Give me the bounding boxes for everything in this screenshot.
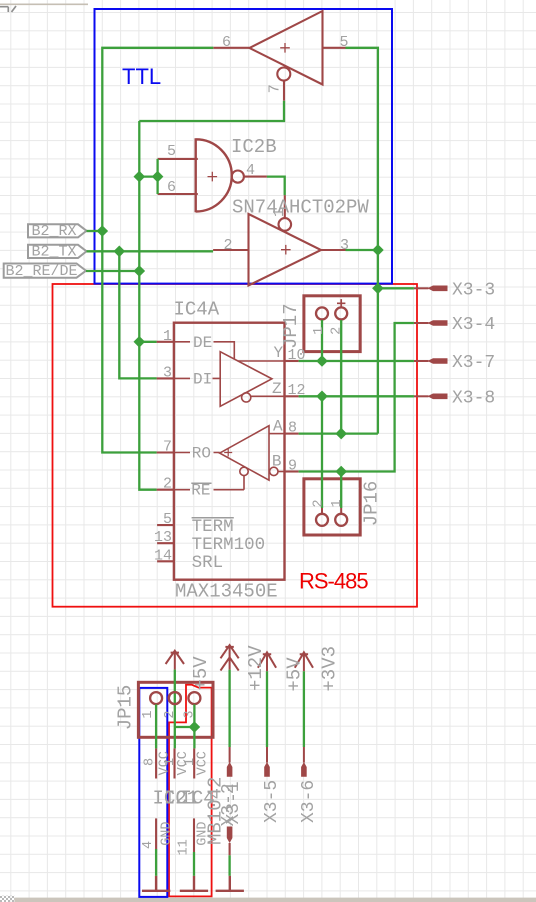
svg-text:8: 8 [288, 420, 297, 437]
wire +12V arrow down to X3-1 [228, 670, 230, 747]
wire X3-2 to ground [228, 855, 230, 876]
pin X3-1 flag [227, 762, 233, 777]
wire NOR pin4 to IC2A pin1 [267, 177, 285, 196]
buffer gate IC2A (pointing right) [249, 214, 322, 286]
receiver triangle inside IC4A [174, 426, 285, 490]
wire Y pin10 to X3-7 [299, 360, 414, 362]
junction NOR input tie [152, 171, 164, 183]
pin stub X3-6 [303, 747, 305, 763]
wire JP15 pin1 down to IC2 VCC [155, 704, 157, 748]
wire +5V down to X3-5 [266, 671, 268, 747]
svg-text:A: A [273, 418, 283, 436]
junction B2_RX [97, 225, 109, 237]
IC2 GND pin 4 stub [155, 818, 157, 849]
svg-text:11: 11 [177, 839, 192, 855]
svg-text:4: 4 [141, 841, 156, 849]
pin stub X3-3 [414, 287, 429, 289]
junction X3-3 branch [372, 283, 384, 295]
pin stub X3-7 [414, 360, 429, 362]
wire NOR input tie [139, 159, 157, 194]
frame IC2 power blue group box (bottom) [139, 688, 167, 897]
svg-text:SN74AHCT02PW: SN74AHCT02PW [232, 197, 369, 219]
svg-text:2: 2 [224, 237, 233, 254]
svg-text:2: 2 [163, 476, 172, 493]
wire B pin9 line up to X3-4 [299, 323, 414, 472]
svg-text:4: 4 [246, 162, 255, 179]
svg-text:+12V: +12V [245, 645, 267, 691]
wire B2_TX horizontal to IC2A pin2 [87, 250, 214, 252]
ground symbol GND (left) [142, 876, 170, 891]
svg-text:RE: RE [191, 482, 210, 500]
svg-text:1: 1 [330, 499, 345, 507]
pin 4 stub [245, 176, 267, 178]
wire JP15 pin2 down and over [175, 704, 195, 748]
junction B2_RE/DE [134, 265, 146, 277]
connector JP15 [138, 682, 213, 737]
wire +5V arrow to JP15 pin2 [174, 670, 176, 692]
wire JP17 pin2 to A line [340, 320, 342, 434]
IC4 GND pin 11 stub [193, 818, 195, 852]
connector JP17 [304, 296, 360, 352]
pin stub X3-4 [414, 322, 429, 324]
junction Z / JP16 pin2 [316, 391, 328, 403]
svg-text:X3-4: X3-4 [452, 315, 495, 335]
frame TTL blue group box [95, 9, 393, 284]
svg-text:+3V3: +3V3 [319, 646, 341, 692]
svg-text:TTL: TTL [122, 64, 161, 89]
pin 14 stub [157, 560, 174, 562]
pin stub X3-5 [266, 747, 268, 763]
pin 9 B stub [285, 470, 299, 472]
pin 1 DE stub [157, 341, 174, 343]
pin 10 Y stub [285, 360, 299, 362]
svg-text:+5V: +5V [190, 656, 212, 691]
frame corner label top-left [0, 6, 16, 12]
pin 6 stub [213, 47, 249, 49]
pin 2 RE stub [157, 489, 174, 491]
svg-text:JP15: JP15 [115, 685, 137, 731]
svg-text:14: 14 [154, 547, 172, 564]
NOR gate IC2B [196, 138, 232, 212]
junction RE/DE to NOR tie [134, 171, 146, 183]
pin X3-2 flag (points down) [227, 827, 233, 844]
inverter gate IC2 (top, pointing left) [250, 11, 323, 85]
svg-text:JP16: JP16 [361, 481, 383, 527]
pin 5 stub [158, 158, 198, 160]
pin 5 stub [323, 47, 346, 49]
pin X3-6 flag [301, 762, 307, 777]
connector JP15 pad 2 ring redraw [169, 692, 181, 704]
svg-text:7: 7 [267, 84, 284, 93]
svg-text:Y: Y [274, 344, 284, 362]
ground symbol GND (middle) [180, 876, 208, 891]
pin 2 stub [213, 249, 248, 251]
net label flag B2_RE/DE [4, 263, 86, 280]
wire JP17 pin1 to Y line [321, 320, 323, 361]
wire DE branch [139, 341, 156, 343]
frame RS-485 red group box [53, 284, 418, 607]
wire IC4 GND pin to ground [193, 852, 195, 876]
svg-text:X3-8: X3-8 [452, 388, 495, 408]
net label flag B2_TX [28, 244, 87, 261]
X3 flag pins [227, 286, 448, 844]
svg-text:1: 1 [141, 710, 156, 718]
svg-text:+5V: +5V [284, 657, 306, 692]
junction B2_TX [114, 246, 126, 258]
junction A / JP17 pin2 [335, 428, 347, 440]
svg-text:RS-485: RS-485 [299, 569, 368, 594]
wire B2_RX label to vertical [87, 230, 103, 232]
svg-text:3: 3 [340, 237, 349, 254]
pin 1 stub [284, 195, 286, 218]
supply symbol +3V3 arrow (X3-6 column) [295, 652, 313, 671]
junction pin3 output [372, 244, 384, 256]
junction Y / JP17 pin1 [316, 355, 328, 367]
wire B2_RE/DE label to vertical [86, 270, 139, 272]
svg-text:2: 2 [330, 327, 345, 335]
svg-text:DI: DI [193, 370, 212, 388]
svg-text:GND: GND [159, 821, 174, 845]
wire Z pin12 to X3-8 [299, 395, 414, 397]
IC4A box MAX13450E [174, 323, 285, 580]
ground symbol GND (right) [216, 876, 244, 891]
pin 3 DI stub [157, 377, 174, 379]
svg-text:5: 5 [163, 511, 172, 528]
wire IC2 GND pin to ground [155, 849, 157, 876]
svg-text:Z: Z [272, 380, 282, 398]
frame bottom-left hatch [0, 896, 14, 902]
svg-text:X3-3: X3-3 [452, 280, 495, 300]
wire B2_RX net: top gate pin6 / vertical / RO [102, 48, 213, 453]
svg-text:IC4A: IC4A [174, 299, 220, 321]
svg-text:B2_RX: B2_RX [32, 223, 77, 240]
wire +3V3 down to X3-6 [303, 671, 305, 747]
supply symbol +12V double arrow [221, 645, 239, 671]
X3-2 pin stub [229, 843, 231, 855]
pin 7 RO stub [157, 451, 174, 453]
pin 8 A stub [285, 433, 299, 435]
junction B / JP16 pin1 [335, 466, 347, 478]
svg-text:12: 12 [288, 382, 306, 399]
svg-text:1: 1 [271, 208, 288, 217]
svg-text:DE: DE [193, 334, 212, 352]
driver triangle inside IC4A [174, 342, 285, 407]
svg-text:X3-5: X3-5 [262, 780, 282, 823]
svg-text:2: 2 [163, 710, 178, 718]
IC2 VCC pin 8 stub [155, 748, 157, 778]
svg-text:2: 2 [311, 499, 326, 507]
junction DE branch [134, 336, 146, 348]
svg-text:5: 5 [167, 143, 176, 160]
wire top gate pin5 to vertical x378 down to A line [346, 48, 378, 434]
svg-text:B: B [272, 453, 282, 471]
frame bottom bar [14, 898, 536, 902]
pin 6 stub [158, 193, 198, 195]
wire B2_TX vertical to DI [119, 251, 156, 378]
wire Z line to JP16 pin2 [321, 396, 323, 508]
svg-text:GND: GND [195, 821, 210, 845]
pin 3 stub [321, 249, 346, 251]
wire RE/DE net: pin7 of top gate over to x139 vertical [139, 101, 284, 121]
svg-text:X3-6: X3-6 [299, 780, 319, 823]
svg-text:B2_RE/DE: B2_RE/DE [6, 263, 78, 280]
svg-text:MAX13450E: MAX13450E [175, 581, 278, 603]
pin 5 stub [157, 524, 174, 526]
pin X3-3 flag [428, 286, 448, 292]
svg-text:SRL: SRL [192, 553, 224, 573]
pin stub X3-1 [229, 747, 231, 763]
pin X3-4 flag [428, 320, 448, 326]
pin X3-7 flag [428, 358, 448, 364]
svg-text:5: 5 [340, 34, 349, 51]
svg-text:TERM100: TERM100 [192, 535, 266, 555]
pin 12 Z stub [285, 395, 299, 397]
svg-text:6: 6 [167, 179, 176, 196]
pin 7 stub [283, 81, 285, 100]
supply symbol +5V arrow (above JP15) [166, 651, 184, 670]
pin X3-5 flag [264, 762, 270, 777]
junction JP15 pin2/pin3 tie [189, 721, 201, 733]
svg-text:B2_TX: B2_TX [32, 244, 77, 261]
svg-text:10: 10 [288, 347, 306, 364]
svg-text:9: 9 [288, 457, 297, 474]
IC4 VCC pin stub [193, 748, 195, 778]
svg-text:VCC: VCC [196, 751, 211, 775]
svg-text:JP17: JP17 [280, 303, 302, 349]
wire RE/DE vertical down to RE pin [139, 121, 156, 490]
wire A pin8 line [299, 432, 378, 434]
pin X3-8 flag [428, 394, 448, 400]
net label flag B2_RX [28, 223, 87, 240]
connector JP16 [304, 479, 360, 535]
svg-text:7: 7 [163, 439, 172, 456]
svg-text:3: 3 [183, 710, 198, 718]
IC1 VCC pin stub [173, 748, 175, 778]
svg-text:1: 1 [312, 327, 327, 335]
wire X3-3 branch [378, 287, 414, 289]
wire JP15 pin3 down to IC4 VCC [193, 704, 195, 748]
frame top border line [0, 3, 88, 5]
svg-text:1: 1 [163, 328, 172, 345]
pin stub X3-8 [414, 395, 429, 397]
wire B line to JP16 pin1 [340, 472, 342, 509]
svg-text:RO: RO [192, 445, 211, 463]
svg-text:IC2B: IC2B [231, 136, 277, 158]
wire IC2A pin3 to vertical [346, 249, 378, 251]
svg-text:13: 13 [154, 529, 172, 546]
svg-text:3: 3 [163, 364, 172, 381]
frame IC4 power red group box (bottom, notched) [169, 685, 212, 897]
pin 13 stub [157, 542, 174, 544]
svg-text:6: 6 [222, 34, 231, 51]
svg-text:8: 8 [142, 758, 157, 766]
supply symbol +5V arrow (X3-5 column) [258, 652, 276, 671]
svg-text:X3-7: X3-7 [452, 353, 495, 373]
